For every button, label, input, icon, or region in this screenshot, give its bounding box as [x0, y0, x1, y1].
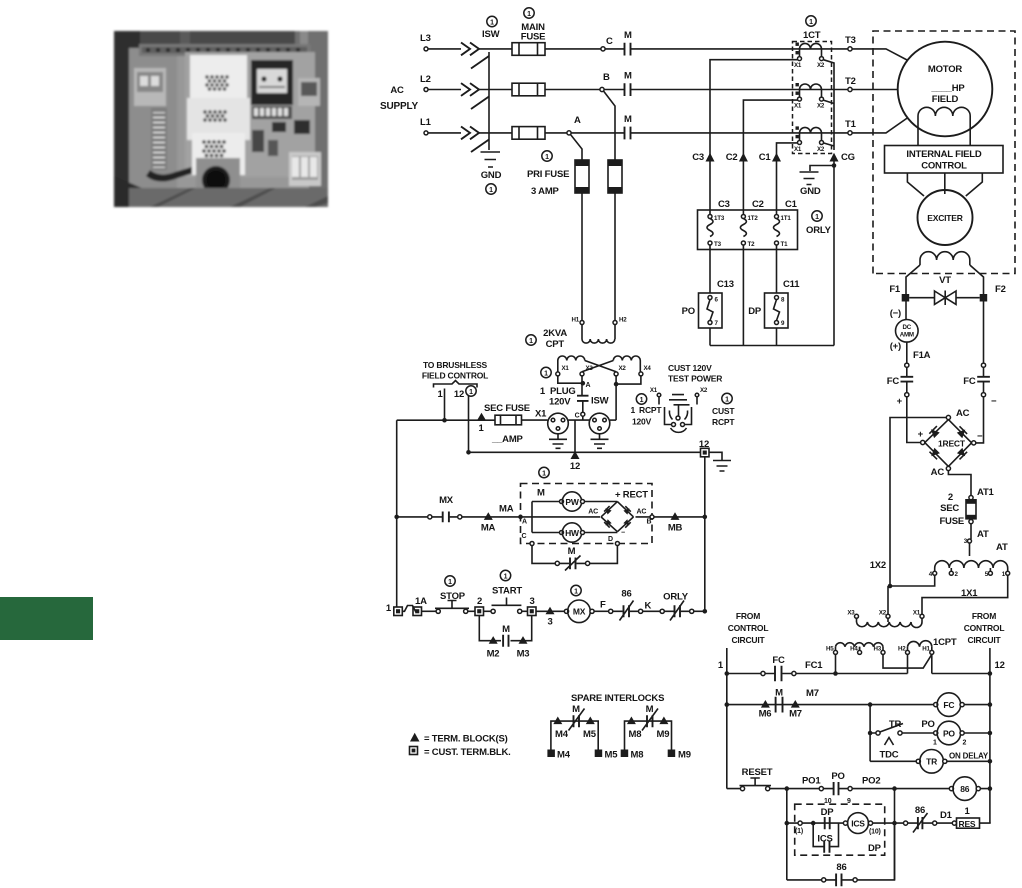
wire square 12 to ground	[709, 452, 722, 460]
sec fuse 2	[966, 500, 976, 519]
terminal square 12	[701, 448, 710, 457]
main fuse L1	[479, 132, 512, 134]
coil PO	[934, 731, 938, 735]
node 12 stub junction	[466, 450, 471, 455]
node minus right	[981, 393, 985, 397]
circled 1 rcpt	[636, 394, 646, 404]
svg-text:DP: DP	[748, 306, 762, 317]
bottom row 86 wire	[787, 823, 895, 880]
svg-text:ON DELAY: ON DELAY	[949, 752, 989, 761]
svg-text:M9: M9	[678, 750, 691, 761]
wire X2 to 1X2	[887, 586, 889, 614]
svg-text:CG: CG	[841, 152, 855, 163]
node B	[600, 87, 604, 91]
wire X2 leg to ISW circle	[610, 419, 616, 421]
svg-text:1: 1	[718, 660, 724, 671]
wire H2 to row1	[907, 654, 909, 673]
svg-text:A: A	[586, 382, 591, 389]
diode 1RECT top-right	[957, 430, 966, 439]
svg-text:C1: C1	[759, 152, 772, 163]
wire rectifier AC bottom to fuse	[948, 471, 971, 496]
svg-text:M: M	[572, 704, 580, 715]
node T3	[848, 47, 852, 51]
switch ISW pole L3	[461, 43, 489, 69]
autotransformer AT coil	[935, 561, 1008, 568]
node rail12 row2	[988, 702, 993, 707]
pin H3	[881, 650, 885, 654]
receptacle PLUG circle	[548, 413, 569, 434]
row5 wire	[727, 788, 990, 790]
svg-text:CIRCUIT: CIRCUIT	[967, 635, 1001, 645]
svg-text:PO1: PO1	[802, 776, 821, 787]
circled 1 CPT	[526, 335, 536, 345]
diode 1RECT bottom-left	[931, 448, 940, 457]
svg-text:ISW: ISW	[482, 29, 500, 40]
svg-text:FUSE: FUSE	[521, 32, 546, 43]
terminal triangle 3	[546, 607, 555, 615]
svg-text:1A: 1A	[415, 596, 427, 607]
wire CT1 X1 to C3 column	[710, 60, 798, 216]
pin H4	[858, 650, 862, 654]
svg-text:ORLY: ORLY	[806, 225, 832, 236]
svg-text:1: 1	[544, 370, 548, 377]
svg-text:INTERNAL FIELD: INTERNAL FIELD	[906, 149, 981, 160]
svg-text:1: 1	[545, 154, 549, 161]
wire terminal 12 stub	[468, 389, 470, 453]
svg-text:RESET: RESET	[742, 767, 773, 778]
varistor VT	[909, 297, 980, 299]
svg-text:M8: M8	[629, 729, 642, 740]
svg-text:C3: C3	[718, 199, 730, 210]
wire box internal branches	[521, 502, 601, 533]
exciter circle	[918, 190, 973, 245]
svg-text:1CPT: 1CPT	[933, 637, 957, 648]
ORLY heater C1	[775, 215, 779, 219]
node FC1 junction	[833, 671, 838, 676]
switch ISW pole L2	[461, 83, 489, 109]
current transformer assembly 1CT dashed enclosure	[793, 42, 832, 154]
wire CG down	[833, 162, 835, 346]
tap 1	[1006, 571, 1010, 575]
coil TR	[916, 759, 920, 763]
svg-text:H1: H1	[571, 317, 579, 324]
svg-text:1: 1	[489, 187, 493, 194]
wire MX row	[397, 516, 521, 518]
aux contact C13 box	[699, 293, 723, 328]
svg-text:X2: X2	[619, 365, 627, 372]
svg-text:12: 12	[995, 660, 1005, 671]
CT T3 secondary coil	[800, 43, 822, 49]
svg-text:MX: MX	[573, 607, 586, 617]
pin C box bottom	[530, 542, 534, 546]
contact M phase A	[571, 132, 848, 134]
svg-text:RES: RES	[959, 819, 976, 829]
vertical reset branch	[786, 789, 788, 880]
svg-text:H4: H4	[850, 646, 858, 653]
contact M seal-in	[503, 635, 508, 647]
svg-text:SPARE INTERLOCKS: SPARE INTERLOCKS	[571, 693, 664, 704]
node rail12 row1	[988, 671, 993, 676]
wire terminal 1 stub	[444, 389, 446, 421]
svg-text:3: 3	[547, 617, 552, 628]
wire 3 to MX coil	[536, 610, 565, 612]
svg-text:DC: DC	[903, 324, 912, 331]
wire C to plug row	[575, 416, 590, 420]
svg-text:M6: M6	[759, 709, 772, 720]
dashed enclosure motor	[873, 31, 1015, 274]
node H1	[580, 321, 584, 325]
svg-text:1: 1	[540, 386, 546, 397]
wire hump 1 to 1A	[402, 606, 417, 612]
svg-text:PO: PO	[831, 771, 844, 782]
svg-text:FC: FC	[963, 376, 976, 387]
svg-text:T1: T1	[845, 119, 857, 130]
ground GND below ISW	[481, 152, 501, 167]
row1 wire left	[727, 673, 761, 675]
svg-text:FC: FC	[772, 655, 785, 666]
circled 1 start	[500, 570, 510, 580]
wire ammeter to F1A	[906, 342, 908, 363]
svg-text:EXCITER: EXCITER	[927, 213, 963, 223]
wire F1 to ammeter	[905, 302, 907, 320]
node CG junction	[832, 163, 837, 168]
svg-text:2: 2	[948, 492, 953, 503]
svg-text:1: 1	[809, 19, 813, 26]
contact 86 NC	[609, 609, 613, 613]
wire FC coil to rail12	[964, 704, 990, 706]
wire exciter coil to F1 F2	[906, 265, 984, 294]
svg-text:F1A: F1A	[913, 350, 931, 361]
svg-text:1: 1	[504, 573, 508, 580]
wire 86 to ORLY	[643, 610, 660, 612]
svg-text:1: 1	[527, 11, 531, 18]
node FC right top	[981, 363, 985, 367]
svg-text:1RECT: 1RECT	[938, 439, 966, 449]
transformer 1CPT primary coil B	[908, 647, 932, 651]
wire MX to 86	[594, 610, 608, 612]
node X2 junction	[614, 382, 619, 387]
svg-text:12: 12	[454, 389, 464, 400]
wire M bypass branch	[532, 546, 617, 564]
svg-text:MA: MA	[481, 523, 496, 534]
svg-text:H2: H2	[619, 317, 627, 324]
svg-text:8: 8	[781, 297, 785, 304]
node sub branch junction	[811, 821, 816, 826]
wire fuse L3 to node C	[545, 48, 601, 50]
terminal F1	[902, 294, 910, 302]
wire 2 to start	[484, 610, 492, 612]
svg-text:L2: L2	[420, 74, 431, 85]
receptacle cust test power	[659, 395, 697, 433]
svg-text:1: 1	[725, 396, 729, 403]
node PO2 junction	[892, 786, 897, 791]
svg-text:1: 1	[1002, 571, 1006, 578]
diode RECT tl	[605, 508, 611, 514]
terminal 12 triangle	[571, 451, 580, 459]
svg-text:2: 2	[963, 740, 967, 747]
wire C13 to bottom bus	[709, 328, 711, 346]
node rail12 row5	[988, 786, 993, 791]
contact 86 NC row6	[918, 817, 923, 829]
svg-text:FC: FC	[943, 700, 954, 710]
terminal triangle MB	[671, 512, 680, 520]
wire plug to terminal 12 drop	[568, 420, 575, 452]
terminal square 2	[475, 607, 484, 616]
svg-text:B: B	[603, 72, 610, 83]
svg-text:ICS: ICS	[817, 834, 832, 845]
svg-text:M: M	[624, 114, 632, 125]
svg-text:M5: M5	[605, 750, 619, 761]
tap 2	[949, 571, 953, 575]
diode 1RECT bottom-right	[957, 448, 965, 457]
svg-text:PW: PW	[565, 497, 579, 507]
wire PO coil to rail12	[964, 732, 990, 734]
coil ICS	[848, 813, 869, 834]
wire H3 to H1 link	[883, 654, 932, 668]
svg-text:AT: AT	[977, 529, 989, 540]
wire bus 12 row	[469, 451, 701, 453]
transformer 1CPT secondary coil	[857, 618, 923, 622]
coil 86	[949, 787, 953, 791]
svg-text:T1: T1	[781, 241, 789, 248]
svg-text:M5: M5	[583, 729, 597, 740]
wire right bus from 12	[704, 457, 706, 612]
svg-text:1: 1	[437, 389, 443, 400]
svg-text:1: 1	[815, 214, 819, 221]
svg-text:= CUST. TERM.BLK.: = CUST. TERM.BLK.	[424, 747, 511, 758]
capacitor FC right	[983, 367, 985, 376]
diode 1RECT top-left	[931, 429, 940, 438]
svg-text:3: 3	[529, 596, 534, 607]
cust test power pin X1	[657, 393, 661, 397]
svg-text:7: 7	[715, 320, 719, 327]
tap 4	[933, 571, 937, 575]
motor M1 circle	[898, 42, 993, 137]
terminal square 1A	[413, 607, 422, 616]
pin row6	[904, 821, 908, 825]
pushbutton RESET	[740, 787, 744, 791]
row4 wire	[870, 760, 990, 762]
wire C3 column to C13	[709, 245, 711, 293]
node plus left	[905, 393, 909, 397]
svg-text:120V: 120V	[632, 417, 652, 427]
fuse SEC FUSE	[495, 415, 522, 425]
bridge RECT small	[601, 502, 634, 532]
svg-text:GND: GND	[481, 170, 502, 181]
svg-text:T2: T2	[748, 241, 756, 248]
pin C	[581, 412, 585, 416]
svg-text:SEC FUSE: SEC FUSE	[484, 403, 530, 414]
svg-text:____HP: ____HP	[930, 83, 965, 94]
contact M normally closed bypass	[555, 561, 559, 565]
wire start to 3	[522, 610, 527, 612]
wire ISW trunk	[488, 52, 490, 150]
box internal field control	[885, 146, 1004, 174]
svg-text:A: A	[522, 519, 527, 526]
legend cust term block	[410, 747, 418, 755]
tap 5	[988, 571, 992, 575]
svg-text:9: 9	[781, 320, 785, 327]
svg-text:CUST 120V: CUST 120V	[668, 363, 712, 373]
svg-text:X4: X4	[644, 365, 652, 372]
node bus bottom junction	[703, 609, 708, 614]
wire T3 to motor	[852, 49, 908, 61]
node L1	[424, 131, 428, 135]
svg-text:X3: X3	[847, 610, 855, 617]
pin X2	[614, 372, 618, 376]
node rail12 row4	[988, 759, 993, 764]
main fuse L2	[479, 89, 512, 91]
svg-text:L3: L3	[420, 33, 431, 44]
svg-text:2: 2	[477, 596, 482, 607]
transformer 2KVA CPT secondary coils	[558, 356, 585, 361]
wire CT X2 common to CG bus	[823, 60, 834, 150]
svg-text:PO: PO	[943, 728, 955, 738]
ORLY heater C3	[708, 215, 712, 219]
svg-text:M: M	[568, 546, 576, 557]
terminal triangle M2	[489, 636, 498, 644]
circled 1 ISW	[487, 16, 497, 26]
svg-text:TR: TR	[926, 757, 937, 767]
coil MX	[564, 609, 568, 613]
svg-text:AC: AC	[588, 509, 598, 516]
wire 1X2 riser to rectifier AC top	[890, 418, 948, 587]
svg-text:C: C	[522, 533, 527, 540]
svg-text:CONTROL: CONTROL	[921, 161, 967, 172]
svg-text:1: 1	[386, 603, 392, 614]
node AT1	[969, 496, 973, 500]
svg-text:= TERM. BLOCK(S): = TERM. BLOCK(S)	[424, 734, 508, 745]
svg-text:1: 1	[574, 588, 578, 595]
dashed enclosure PW HW rectifier	[521, 484, 653, 544]
svg-text:C2: C2	[752, 199, 764, 210]
svg-text:CPT: CPT	[546, 339, 565, 350]
wire node A to pri fuse 1	[571, 135, 583, 161]
terminal CG	[830, 153, 839, 162]
svg-text:86: 86	[621, 589, 631, 600]
terminal triangle M6	[761, 700, 770, 708]
svg-text:C: C	[606, 36, 613, 47]
svg-text:HW: HW	[565, 528, 580, 538]
svg-text:+: +	[918, 429, 924, 440]
wire H1 to row1	[931, 654, 933, 673]
svg-text:X1: X1	[913, 610, 921, 617]
node T1	[848, 131, 852, 135]
wire X1 X3 to node A	[558, 376, 582, 395]
wire sec fuse row	[397, 419, 495, 421]
vertical PO2 branch	[894, 789, 896, 880]
secondary crossing links	[558, 361, 641, 372]
svg-text:TEST POWER: TEST POWER	[668, 374, 722, 384]
pushbutton STOP	[436, 609, 440, 613]
svg-text:FROM: FROM	[736, 611, 760, 621]
svg-text:(1): (1)	[795, 828, 803, 835]
wire tap1 to 1X1	[922, 575, 1008, 614]
diode RECT br	[623, 519, 629, 525]
svg-text:F1: F1	[889, 284, 901, 295]
circled 1 stop	[445, 576, 455, 586]
svg-text:(−): (−)	[890, 308, 901, 319]
ground below ISW circle	[591, 434, 609, 449]
svg-text:1: 1	[490, 19, 494, 26]
svg-text:C3: C3	[692, 152, 704, 163]
svg-text:M4: M4	[555, 729, 569, 740]
pri fuse 2	[608, 160, 622, 193]
pushbutton START	[491, 609, 495, 613]
svg-text:M: M	[646, 704, 654, 715]
node A junction	[581, 381, 586, 386]
rail 1 left	[726, 648, 728, 789]
circled 1 plug	[541, 367, 551, 377]
circled 1 pri fuse	[542, 151, 552, 161]
contact TR timed	[876, 731, 880, 735]
svg-text:86: 86	[960, 784, 970, 794]
svg-text:FC: FC	[887, 376, 900, 387]
wire seal-in branch M2 M3	[479, 616, 531, 641]
svg-text:1X1: 1X1	[961, 588, 978, 599]
node row6 right junction	[892, 821, 897, 826]
pri fuse 1	[575, 160, 589, 193]
svg-text:ICS: ICS	[851, 818, 865, 828]
wire row1 to H segment	[796, 673, 990, 675]
svg-text:−: −	[621, 530, 625, 537]
svg-text:PO: PO	[921, 719, 934, 730]
svg-text:M7: M7	[806, 688, 819, 699]
pin H1	[930, 650, 934, 654]
wire pri fuse 1 to H1	[581, 193, 583, 320]
svg-text:2KVA: 2KVA	[543, 328, 567, 339]
svg-text:M4: M4	[557, 750, 571, 761]
wire fuse to tap 3	[970, 524, 972, 539]
svg-text:X2: X2	[817, 103, 825, 110]
svg-text:1T1: 1T1	[781, 215, 792, 222]
spare interlock M4 M5	[551, 721, 598, 726]
svg-text:X1: X1	[562, 365, 570, 372]
svg-text:PO2: PO2	[862, 776, 880, 787]
rail 12 right	[989, 648, 991, 789]
svg-text:+: +	[897, 396, 903, 407]
svg-text:M: M	[502, 624, 510, 635]
wire branch vertical	[869, 705, 871, 762]
node T2	[848, 87, 852, 91]
svg-text:F: F	[600, 600, 606, 611]
cust test power pin X2	[695, 393, 699, 397]
motor field coil	[918, 107, 970, 145]
contact MX	[428, 515, 432, 519]
svg-text:T2: T2	[845, 76, 856, 87]
terminal triangle 1	[477, 413, 486, 421]
terminal C2	[739, 153, 748, 162]
contact DP	[825, 817, 830, 829]
circled 1 cust rcpt	[722, 393, 732, 403]
svg-text:1: 1	[448, 579, 452, 586]
node F1A	[905, 363, 909, 367]
svg-text:M: M	[775, 688, 783, 699]
wire ORLY to bus	[694, 610, 705, 612]
green sidebar block	[0, 597, 93, 640]
svg-text:FUSE: FUSE	[939, 516, 964, 527]
resistor RES	[957, 818, 980, 828]
wire L2 lead	[428, 89, 461, 91]
svg-text:CONTROL: CONTROL	[964, 623, 1005, 633]
svg-text:PRI FUSE: PRI FUSE	[527, 169, 569, 180]
svg-text:RCPT: RCPT	[712, 417, 735, 427]
terminal C3	[706, 153, 715, 162]
svg-text:PO: PO	[682, 306, 695, 317]
svg-text:120V: 120V	[549, 397, 571, 408]
terminal square 3	[528, 607, 537, 616]
svg-text:T3: T3	[714, 241, 722, 248]
